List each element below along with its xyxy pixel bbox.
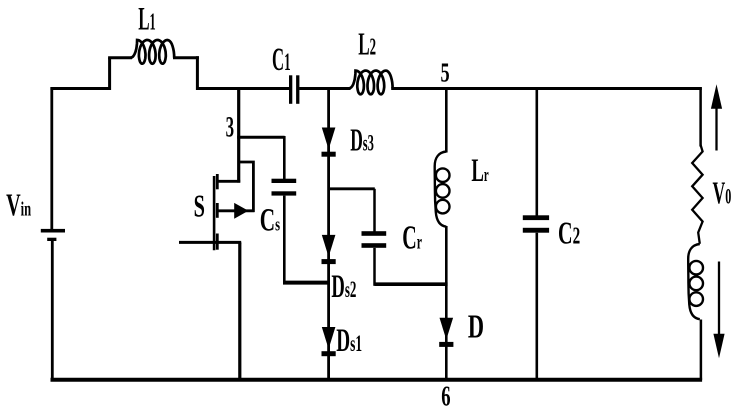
wire Ds3 node to Cr: [329, 187, 375, 190]
diode Ds3: [322, 128, 336, 157]
capacitor Cs: [272, 179, 297, 196]
diode Ds1: [322, 327, 336, 356]
wire node 3 vertical: [237, 87, 240, 183]
wire Cr bottom to Lr-D node: [375, 282, 448, 286]
wire C1 to L2: [299, 87, 350, 90]
svg-text:V0: V0: [713, 175, 732, 211]
svg-text:L1: L1: [138, 1, 156, 37]
wire L1 plateau right: [173, 56, 199, 59]
wire L1 plateau left: [108, 56, 132, 59]
wire left rail top: [50, 87, 53, 230]
svg-text:5: 5: [441, 58, 450, 89]
wire node 3 to Cs: [237, 136, 284, 139]
wire Cr top lead: [373, 189, 376, 232]
svg-text:6: 6: [441, 380, 450, 411]
wire Ds1-Ds3 column: [327, 87, 330, 380]
wire S source to bottom rail: [238, 242, 241, 380]
wire Cr bottom lead: [373, 248, 376, 286]
wire L1 right step: [196, 56, 199, 90]
svg-text:L2: L2: [358, 26, 376, 62]
svg-text:C2: C2: [558, 215, 580, 251]
wire Lr to D to bottom rail: [445, 226, 448, 380]
svg-text:3: 3: [226, 112, 234, 144]
arrow Vo up: [711, 84, 722, 150]
wire C2 top lead: [535, 87, 538, 216]
battery Vin: [41, 229, 65, 241]
svg-text:Ds1: Ds1: [336, 322, 362, 359]
wire C2 bottom lead: [535, 233, 538, 380]
wire L1 left step: [108, 58, 111, 90]
wire node 5 down to Lr: [445, 87, 448, 153]
wire left rail bottom: [51, 241, 54, 380]
svg-text:Cs: Cs: [260, 202, 280, 238]
diode Ds2: [322, 235, 336, 264]
svg-text:C1: C1: [272, 41, 291, 78]
svg-text:Vin: Vin: [6, 187, 32, 223]
svg-text:Ds2: Ds2: [331, 267, 356, 304]
wire top rail right segment: [391, 87, 702, 90]
svg-text:S: S: [194, 188, 205, 224]
wire right branch top: [699, 87, 702, 146]
resistor load Vo zigzag: [692, 145, 702, 244]
arrow Vo down: [713, 262, 724, 359]
inductor L2: [349, 71, 392, 95]
transistor S (MOSFET): [214, 162, 254, 250]
svg-text:Lr: Lr: [471, 152, 488, 189]
wire top rail left segment: [50, 87, 111, 90]
capacitor C2: [523, 215, 549, 232]
svg-text:Ds3: Ds3: [350, 122, 374, 158]
svg-text:Cr: Cr: [402, 218, 422, 256]
inductor Lr: [435, 152, 450, 227]
wire right branch bottom: [700, 320, 703, 381]
inductor load Vo coil: [688, 244, 703, 319]
capacitor C1: [289, 75, 299, 104]
wire top rail to C1: [197, 87, 289, 90]
capacitor Cr: [362, 231, 387, 248]
diode D: [439, 318, 453, 347]
inductor L1: [131, 40, 175, 64]
wire Cs bottom to Ds2 node: [283, 281, 330, 285]
wire bottom rail: [51, 378, 703, 382]
wire Cs bottom lead: [283, 196, 286, 283]
svg-text:D: D: [468, 308, 484, 346]
wire Cs top lead: [283, 136, 286, 180]
wire S source lead: [179, 241, 241, 244]
